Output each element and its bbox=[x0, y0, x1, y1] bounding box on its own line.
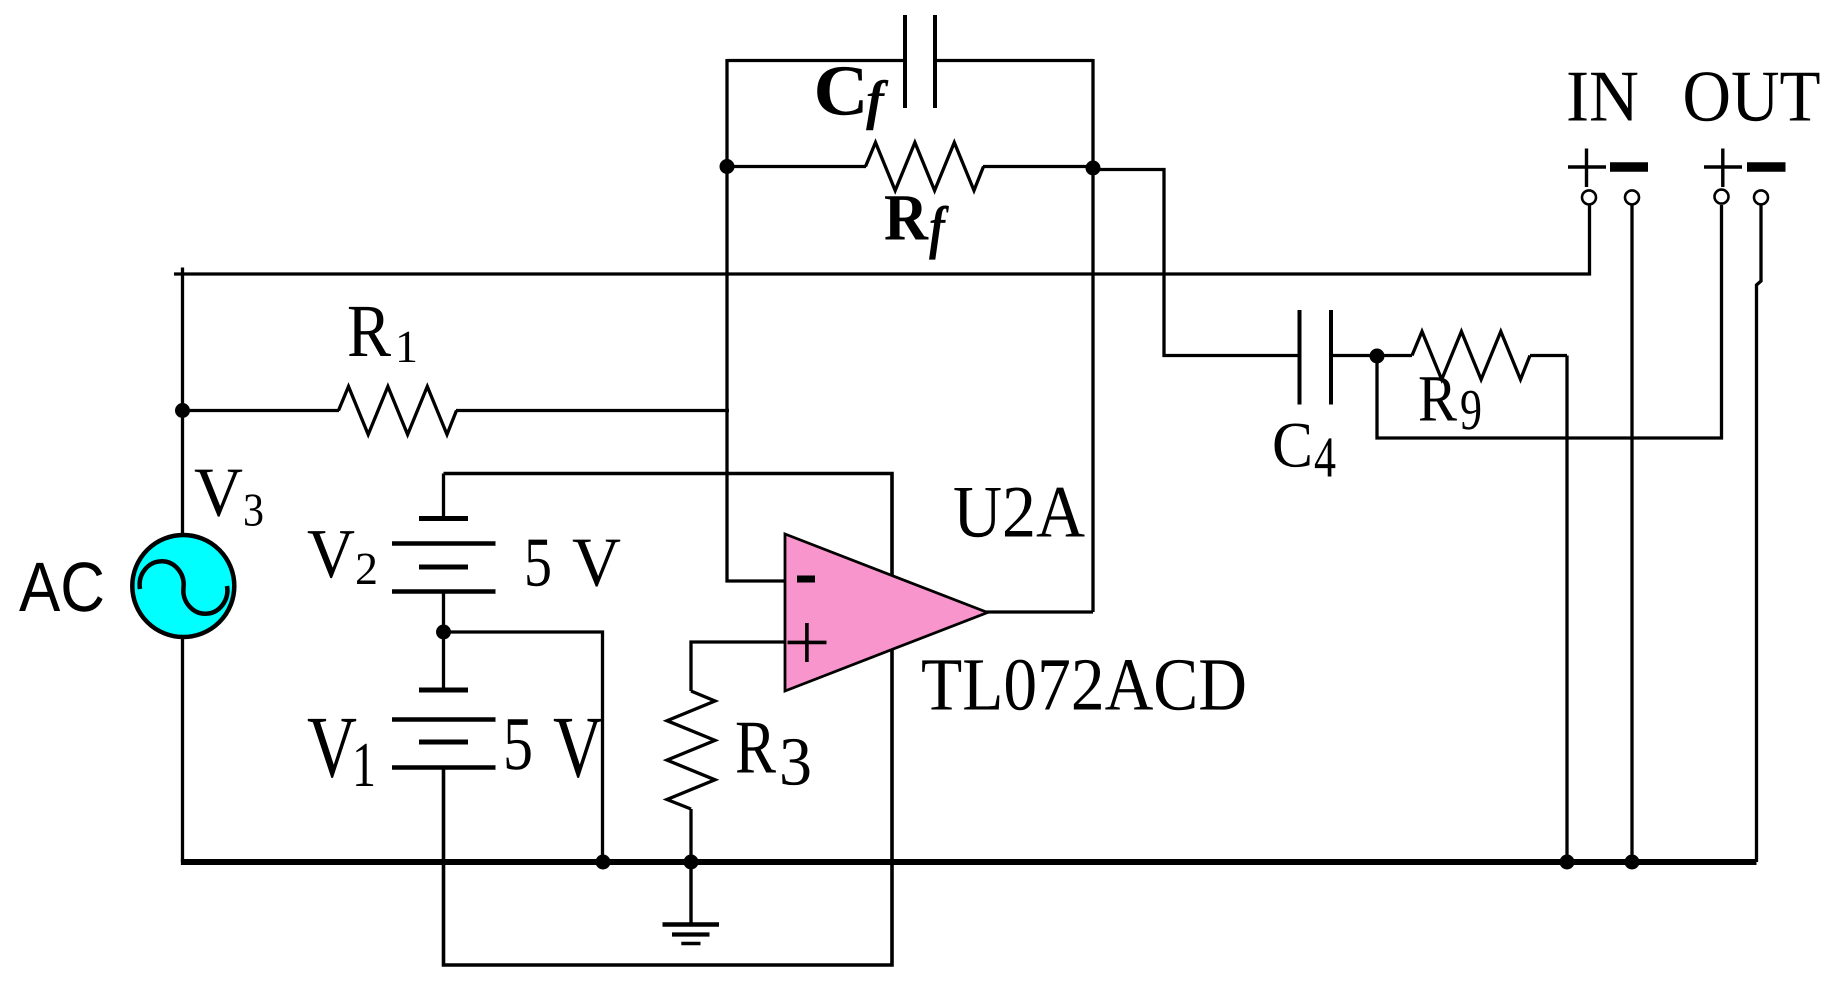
label AC bbox=[19, 548, 105, 626]
op-amp non-inverting pin mark bbox=[788, 623, 827, 662]
ground symbol bbox=[663, 862, 720, 944]
svg-text:5: 5 bbox=[503, 702, 533, 786]
wire V1 bottom / power box bbox=[444, 474, 893, 966]
node junction Rf left bbox=[720, 159, 735, 174]
terminal OUT- minus mark bbox=[1747, 162, 1786, 172]
wire inverting-input vertical bbox=[727, 167, 785, 582]
svg-text:R: R bbox=[735, 706, 776, 790]
label Cf bbox=[814, 51, 889, 131]
terminal IN- minus mark bbox=[1610, 162, 1648, 172]
terminal OUT+ plus mark bbox=[1704, 149, 1742, 188]
svg-text:U2A: U2A bbox=[953, 472, 1085, 554]
label V3 bbox=[194, 455, 264, 537]
wire op-amp + input bbox=[691, 642, 785, 691]
svg-text:AC: AC bbox=[19, 548, 105, 626]
wire V3 bottom bbox=[181, 637, 184, 862]
node junction R3-ground bbox=[684, 855, 699, 870]
label C4 bbox=[1272, 410, 1336, 490]
node junction R9-rail bbox=[1560, 855, 1575, 870]
wire op-amp output bbox=[986, 610, 1093, 613]
ac source sine symbol bbox=[140, 561, 228, 613]
wire C4 right bbox=[1331, 354, 1377, 357]
wire C4/R9 junction to OUT+ bbox=[1377, 205, 1722, 438]
wire OUT- vertical bbox=[1757, 205, 1762, 862]
wire V2-V1 mid bbox=[442, 592, 445, 691]
label V2 bbox=[307, 516, 378, 594]
svg-text:R: R bbox=[884, 182, 929, 255]
label IN bbox=[1566, 56, 1639, 137]
svg-text:1: 1 bbox=[352, 729, 376, 800]
resistor R3 bbox=[667, 691, 715, 862]
wire long input line y=274 bbox=[174, 205, 1590, 274]
svg-text:R: R bbox=[347, 290, 391, 373]
wire R9 right to rail bbox=[1565, 356, 1568, 863]
svg-text:2: 2 bbox=[355, 543, 378, 594]
terminal IN- circle bbox=[1625, 190, 1639, 204]
terminal IN+ circle bbox=[1582, 190, 1596, 204]
label R3 bbox=[735, 706, 812, 800]
svg-text:V: V bbox=[307, 700, 357, 797]
svg-text:f: f bbox=[866, 70, 889, 131]
label 5V (V1) bbox=[503, 700, 603, 797]
resistor Rf bbox=[727, 143, 1093, 191]
battery V2 top wire bbox=[442, 474, 445, 519]
svg-text:OUT: OUT bbox=[1683, 56, 1821, 137]
capacitor Cf plates bbox=[905, 15, 935, 108]
svg-text:3: 3 bbox=[779, 724, 812, 800]
ground rail bbox=[181, 859, 1757, 865]
svg-text:R: R bbox=[1418, 363, 1457, 436]
label U2A bbox=[953, 472, 1085, 554]
svg-text:C: C bbox=[1272, 410, 1313, 482]
resistor R1 bbox=[183, 387, 730, 435]
node junction mid-battery bbox=[436, 625, 451, 640]
wire top-feedback horizontal (node inverting input to Cf/Rf left) bbox=[727, 59, 1093, 62]
terminal OUT- circle bbox=[1754, 190, 1768, 204]
label OUT bbox=[1683, 56, 1821, 137]
terminal IN+ plus mark bbox=[1568, 149, 1606, 188]
label V1 bbox=[307, 700, 376, 801]
node junction rail-battery-mid bbox=[596, 855, 611, 870]
wire IN- vertical bbox=[1630, 205, 1633, 862]
wire mid-battery to ground rail bbox=[444, 632, 603, 862]
svg-text:V: V bbox=[553, 700, 603, 797]
label TL072ACD bbox=[921, 644, 1247, 727]
node junction Rf right bbox=[1086, 161, 1101, 176]
svg-text:IN: IN bbox=[1566, 56, 1639, 137]
wire Cf right vertical bbox=[1091, 59, 1094, 612]
op-amp U2A triangle bbox=[785, 534, 988, 691]
label R9 bbox=[1418, 363, 1482, 443]
svg-text:V: V bbox=[194, 455, 243, 532]
svg-text:3: 3 bbox=[243, 485, 264, 537]
terminal OUT+ circle bbox=[1715, 190, 1729, 204]
svg-text:5: 5 bbox=[524, 525, 552, 602]
battery V1 bbox=[392, 690, 496, 768]
label Rf bbox=[884, 182, 949, 261]
svg-text:V: V bbox=[307, 516, 355, 593]
svg-text:9: 9 bbox=[1460, 377, 1482, 442]
wire left source vertical bbox=[181, 268, 184, 537]
wire Cf left vertical bbox=[725, 59, 728, 167]
svg-text:TL072ACD: TL072ACD bbox=[921, 644, 1247, 727]
capacitor C4 plates bbox=[1300, 310, 1332, 405]
battery V2 bbox=[392, 519, 496, 592]
node junction IN- rail bbox=[1625, 855, 1640, 870]
resistor R9 bbox=[1377, 332, 1567, 380]
svg-text:V: V bbox=[572, 525, 621, 602]
ac source V3 circle bbox=[132, 535, 234, 637]
svg-text:4: 4 bbox=[1314, 425, 1336, 490]
node junction C4/R9 bbox=[1370, 349, 1385, 364]
svg-text:f: f bbox=[929, 194, 949, 260]
svg-text:1: 1 bbox=[395, 321, 418, 372]
wire Rf-right to C4 branch bbox=[1093, 170, 1299, 356]
label R1 bbox=[347, 290, 418, 373]
label 5V (V2) bbox=[524, 525, 621, 602]
op-amp inverting pin mark bbox=[797, 576, 815, 583]
node junction R1/V3 bbox=[175, 403, 190, 418]
svg-text:C: C bbox=[814, 51, 869, 131]
